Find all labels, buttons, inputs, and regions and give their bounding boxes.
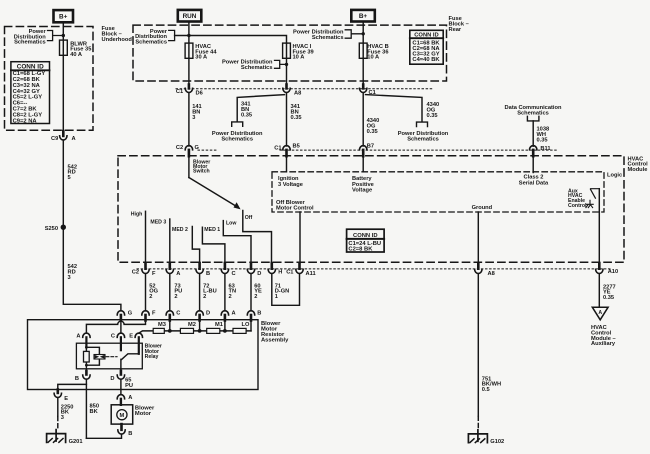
svg-text:Control: Control <box>568 203 587 209</box>
svg-text:D: D <box>110 376 114 382</box>
label: Blower Motor Relay <box>145 343 162 360</box>
wire 850 BK (relay B down) <box>85 379 87 438</box>
wire taps: pins C D A B to resistor network <box>169 315 171 331</box>
svg-text:C: C <box>232 271 236 277</box>
svg-text:A: A <box>76 333 80 339</box>
svg-text:3: 3 <box>61 415 64 421</box>
svg-text:Assembly: Assembly <box>261 338 289 344</box>
svg-text:Schematics: Schematics <box>135 40 167 46</box>
resistor bus wire <box>139 331 251 333</box>
assembly pin F <box>142 311 156 321</box>
svg-text:D6: D6 <box>196 90 203 96</box>
label: Fuse Block - Underhood <box>102 26 133 43</box>
svg-text:C4=40 BK: C4=40 BK <box>412 57 440 63</box>
ground G102 <box>468 430 487 443</box>
svg-text:Rear: Rear <box>449 27 462 33</box>
relay pin E <box>129 333 142 354</box>
label: Power Distribution Schematics (341 branch) <box>212 131 263 142</box>
off-page bracket (data) <box>527 116 539 121</box>
motor symbol M <box>117 410 127 420</box>
wire 52 OG 2 (pin F to resistor F) <box>145 274 147 311</box>
label: Data Communication Schematics <box>505 105 562 116</box>
resistor M3 <box>153 328 164 333</box>
junction on fuse 39 wire <box>285 63 288 66</box>
svg-text:Schematics: Schematics <box>517 111 549 117</box>
svg-text:Switch: Switch <box>193 169 210 175</box>
svg-text:B+: B+ <box>59 14 68 21</box>
svg-text:2: 2 <box>254 294 257 300</box>
CONN ID table (underhood) <box>11 62 50 125</box>
blower motor box <box>111 405 133 424</box>
wire branch 4340 OG 0.35 to power distribution <box>366 95 423 122</box>
svg-text:Low: Low <box>226 220 237 226</box>
svg-text:0.35: 0.35 <box>427 113 438 119</box>
svg-text:Ground: Ground <box>472 205 493 211</box>
power symbol B+ (left) <box>54 10 74 22</box>
wire: RUN to fuse 44 <box>188 22 190 89</box>
svg-text:0.35: 0.35 <box>367 129 378 135</box>
svg-text:C9=2 NA: C9=2 NA <box>13 118 38 124</box>
svg-text:A: A <box>598 310 602 316</box>
svg-text:S250: S250 <box>45 226 58 232</box>
module pin B11 <box>530 146 551 157</box>
svg-text:2: 2 <box>174 294 177 300</box>
svg-text:40 A: 40 A <box>70 52 82 58</box>
power symbol RUN <box>178 10 202 22</box>
module pin B7 <box>360 144 375 157</box>
module pin B <box>196 263 210 277</box>
off-page triangle A (to HVAC control module auxiliary) <box>592 307 608 320</box>
svg-text:2: 2 <box>149 294 152 300</box>
wire: enable control to pin A10 <box>598 189 600 269</box>
svg-text:2: 2 <box>229 294 232 300</box>
assembly pin B <box>247 311 261 321</box>
svg-text:D: D <box>206 311 210 317</box>
svg-text:G201: G201 <box>69 439 83 445</box>
svg-text:3: 3 <box>68 275 71 281</box>
svg-text:CONN ID: CONN ID <box>353 233 377 239</box>
wire 341 BN 0.35 to module B5 <box>286 93 288 146</box>
svg-text:A: A <box>128 395 132 401</box>
svg-text:F: F <box>152 271 156 277</box>
svg-text:G: G <box>128 311 133 317</box>
svg-text:M2: M2 <box>188 322 196 328</box>
switch wiper arm with arrow <box>188 156 190 177</box>
connector pin A8 (fuse block) <box>283 85 301 97</box>
module pin A11 <box>296 263 316 277</box>
svg-text:MED 3: MED 3 <box>150 219 166 225</box>
fuse block underhood box (dashed) <box>5 27 94 131</box>
svg-text:C: C <box>111 333 115 339</box>
fuse HVAC Fuse 44 30 A <box>185 43 193 58</box>
junction on B+ wire <box>62 34 65 37</box>
label 542 RD 5 <box>68 164 78 181</box>
svg-text:Relay: Relay <box>145 354 159 360</box>
svg-text:E: E <box>64 396 68 402</box>
svg-text:H: H <box>278 270 282 276</box>
svg-text:CONN ID: CONN ID <box>414 33 438 39</box>
bracket to B+ wire <box>48 31 64 41</box>
svg-text:B: B <box>206 271 210 277</box>
svg-text:Auxiliary: Auxiliary <box>591 341 616 347</box>
relay pin C <box>111 333 125 350</box>
svg-text:M1: M1 <box>215 322 223 328</box>
fuse block bottom connector row (dotted) <box>176 88 432 90</box>
svg-text:CONN ID: CONN ID <box>17 64 44 71</box>
svg-text:Logic: Logic <box>607 173 622 179</box>
svg-text:0.35: 0.35 <box>537 137 548 143</box>
CONN ID table (rear) <box>410 30 443 64</box>
bracket to RUN wire <box>169 30 175 40</box>
resistor LO <box>233 328 246 333</box>
label 4340 OG 0.35 (branch) <box>427 102 440 119</box>
svg-text:0.35: 0.35 <box>241 112 252 118</box>
wire to ground (dashed) <box>477 416 479 430</box>
CONN ID table (module) <box>347 229 385 253</box>
svg-text:0.5: 0.5 <box>482 387 490 393</box>
relay coil <box>84 346 100 367</box>
fuse HVAC I Fuse 39 10 A <box>286 43 288 88</box>
label: Fuse Block - Rear <box>449 16 469 33</box>
net: Off Blower Motor Control <box>276 200 314 212</box>
svg-text:Serial Data: Serial Data <box>519 181 549 187</box>
svg-text:Schematics: Schematics <box>312 35 344 41</box>
assembly pin A <box>221 311 235 321</box>
svg-text:A11: A11 <box>306 271 316 277</box>
svg-text:Voltage: Voltage <box>352 188 372 194</box>
wire 65 PU (relay D to motor A) <box>120 379 122 395</box>
connector pin C1 (rear fuse block) <box>360 85 376 96</box>
label 141 BN 3 <box>192 104 202 121</box>
wire 542 RD 5 <box>62 140 64 227</box>
wire branch 341 BN 0.35 to power distribution <box>237 95 284 122</box>
assembly pin G <box>117 311 133 321</box>
wire 2250 BK 3 <box>57 398 59 417</box>
motor pin B <box>118 424 133 437</box>
label 1038 WH 0.35 <box>537 127 550 144</box>
svg-text:A: A <box>232 311 236 317</box>
resistor assembly box <box>28 320 259 390</box>
HVAC control module box (dashed) <box>118 156 624 263</box>
wire 4340 OG 0.35 to module B7 <box>362 93 364 146</box>
label: Power Distribution Schematics (RUN) <box>135 29 168 46</box>
label: HVAC Control Module <box>628 156 649 173</box>
module pin D <box>247 263 261 277</box>
assembly pin C <box>166 311 180 321</box>
wire 73 PU 2 (pin A to resistor C) <box>169 274 171 311</box>
relay pin D <box>110 371 124 382</box>
module pin A8 <box>475 263 495 277</box>
svg-text:10 A: 10 A <box>367 55 379 61</box>
svg-text:F: F <box>152 311 156 317</box>
svg-text:M3: M3 <box>158 322 166 328</box>
wire 60 YE 2 (pin D to resistor B) <box>250 274 252 311</box>
ground G201 <box>47 430 66 443</box>
svg-text:B: B <box>257 311 261 317</box>
blower motor switch (inside module) <box>193 159 210 174</box>
label: Power Distribution Schematics (rear B+) <box>293 30 344 41</box>
svg-text:Motor Control: Motor Control <box>276 206 314 212</box>
logic box (inner dashed) <box>272 172 604 212</box>
module pin H <box>268 263 282 276</box>
module pin F <box>142 263 156 277</box>
wire to ground (dashed) <box>57 417 59 430</box>
label: Power Distribution Schematics (fuse 39) <box>222 60 273 71</box>
off-page bracket (341 branch) <box>232 122 243 126</box>
svg-text:G102: G102 <box>490 439 504 445</box>
wire 2277 YE 0.35 (A10 to aux module) <box>598 274 600 308</box>
svg-text:5: 5 <box>68 175 71 181</box>
wire to assembly pin E <box>58 384 87 393</box>
value label BLWR Fuse 35 40 A <box>70 41 91 58</box>
svg-text:High: High <box>131 211 143 217</box>
svg-text:Underhood: Underhood <box>102 37 133 43</box>
svg-text:3: 3 <box>192 115 195 121</box>
label: HVAC Control Module - Auxiliary <box>591 325 616 347</box>
svg-text:0.35: 0.35 <box>291 115 302 121</box>
svg-text:C2: C2 <box>132 269 139 275</box>
svg-text:MED 1: MED 1 <box>204 227 220 233</box>
junction dots on resistor bus <box>168 329 172 333</box>
svg-text:2: 2 <box>203 294 206 300</box>
splice S250 <box>61 225 66 230</box>
svg-text:G: G <box>195 145 200 151</box>
wire 71 D-GN 1 (pin H to pin A11) <box>272 274 300 306</box>
assembly pin D <box>196 311 210 321</box>
connector C1 pin D6 <box>176 85 203 97</box>
relay pin A <box>76 333 90 347</box>
resistor M2 <box>180 328 193 333</box>
wire motor B to 850 BK <box>86 434 121 438</box>
off-page bracket (4340 branch) <box>417 122 428 126</box>
fuse BLWR Fuse 35 40 A <box>60 40 68 55</box>
svg-text:B7: B7 <box>367 144 374 150</box>
relay contact arm <box>121 354 139 375</box>
wire 542 RD 3 to blower relay feed <box>63 227 121 311</box>
label 341 BN 0.35 (branch) <box>241 102 252 119</box>
wire: pin G to relay contact C <box>120 315 122 333</box>
assembly pin E (bottom) <box>54 390 68 402</box>
wire 63 TN 2 (pin C to resistor A) <box>224 274 226 311</box>
svg-text:C: C <box>176 311 180 317</box>
module pin C <box>221 263 235 277</box>
svg-text:LO: LO <box>242 322 250 328</box>
module bottom connector row (dotted) <box>137 268 612 270</box>
label: Blower Motor Resistor Assembly <box>261 321 289 344</box>
relay actuation (dashed) <box>106 356 117 358</box>
svg-text:Motor: Motor <box>135 411 152 417</box>
svg-text:A: A <box>72 136 76 142</box>
junction on rear B+ wire <box>362 32 365 35</box>
wire 72 L-BU 2 (pin B to resistor D) <box>199 274 201 311</box>
label: Blower Motor <box>135 405 155 416</box>
svg-text:0.35: 0.35 <box>603 295 614 301</box>
label 341 BN 0.35 (module feed) <box>291 104 302 121</box>
motor pin A <box>117 395 132 405</box>
svg-text:B: B <box>75 376 79 382</box>
bracket to rear B+ wire <box>345 30 363 38</box>
svg-text:C1: C1 <box>286 269 293 275</box>
svg-text:M: M <box>120 413 125 419</box>
resistor M1 <box>207 328 220 333</box>
module pin A <box>166 263 180 277</box>
svg-text:RUN: RUN <box>183 13 197 20</box>
wire 141 BN 3 <box>188 93 190 146</box>
svg-text:D: D <box>257 271 261 277</box>
svg-text:E: E <box>129 333 133 339</box>
fuse HVAC B Fuse 36 10 A <box>359 43 367 58</box>
module pin G (C2) <box>176 145 200 156</box>
svg-text:C2=8 BK: C2=8 BK <box>348 247 373 253</box>
svg-text:A10: A10 <box>608 269 618 275</box>
svg-text:B: B <box>128 431 132 437</box>
svg-text:C9: C9 <box>51 136 58 142</box>
svg-text:30 A: 30 A <box>195 55 207 61</box>
svg-text:10 A: 10 A <box>293 55 305 61</box>
power symbol B+ (rear) <box>351 10 375 22</box>
junction on RUN wire <box>187 34 190 37</box>
svg-text:Module: Module <box>628 167 648 173</box>
svg-text:B+: B+ <box>359 13 368 20</box>
svg-text:Schematics: Schematics <box>14 40 46 46</box>
module top connector row (dotted) <box>280 149 558 151</box>
svg-text:A: A <box>176 271 180 277</box>
svg-text:C2: C2 <box>176 145 183 151</box>
svg-text:3 Voltage: 3 Voltage <box>278 182 303 188</box>
svg-text:Schematics: Schematics <box>241 65 273 71</box>
bracket to fuse 39 wire <box>275 60 287 68</box>
svg-text:C1: C1 <box>176 89 183 95</box>
aux HVAC enable control driver <box>568 188 587 208</box>
svg-text:B5: B5 <box>293 144 300 150</box>
net: Class 2 Serial Data <box>532 151 534 173</box>
svg-text:Off: Off <box>245 215 253 221</box>
wire: RUN feed bus to fuse 39 <box>175 36 287 44</box>
label: Power Distribution Schematics (4340 branch) <box>398 131 449 142</box>
svg-text:A8: A8 <box>294 90 301 96</box>
wire: B+ to BLWR fuse to connector C9 <box>62 22 64 136</box>
svg-text:A8: A8 <box>488 271 495 277</box>
net: Battery Positive Voltage <box>362 151 364 172</box>
relay box <box>76 343 142 369</box>
fuse block box (dashed, underhood+rear) <box>133 25 447 81</box>
wire 1038 WH 0.35 <box>532 121 534 146</box>
module pin A10 <box>596 263 619 275</box>
svg-text:BK: BK <box>90 409 99 415</box>
module pin B5 (C1) <box>274 144 300 157</box>
svg-text:Schematics: Schematics <box>407 136 439 142</box>
wire: B+ to fuse 36 <box>362 22 364 89</box>
label 542 RD 3 <box>68 264 78 281</box>
svg-text:MED 2: MED 2 <box>172 227 188 233</box>
connector C9 pin A <box>51 131 76 142</box>
svg-text:PU: PU <box>125 383 133 389</box>
label: Power Distribution Schematics (underhood B+) <box>14 29 47 46</box>
svg-text:1: 1 <box>275 294 278 300</box>
wire: pin F to relay coil A (with hop over G wire) <box>86 315 145 333</box>
svg-text:B11: B11 <box>540 146 550 152</box>
relay pin B <box>75 365 90 382</box>
label 4340 OG 0.35 (module feed) <box>367 118 380 135</box>
svg-text:C1: C1 <box>274 145 281 151</box>
wire 751 BK/WH 0.5 (A8 to G102) <box>477 274 479 417</box>
net: Ignition 3 Voltage <box>286 151 288 172</box>
svg-text:Schematics: Schematics <box>221 136 253 142</box>
coil suppression element <box>94 355 105 360</box>
